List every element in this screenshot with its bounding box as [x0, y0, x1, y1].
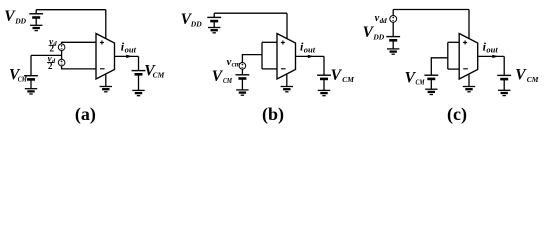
- svg-text:DD: DD: [14, 16, 26, 25]
- svg-text:V: V: [515, 67, 527, 84]
- svg-text:CM: CM: [153, 71, 165, 80]
- svg-text:CM: CM: [527, 75, 539, 84]
- svg-text:out: out: [304, 45, 316, 55]
- svg-text:CM: CM: [416, 78, 425, 87]
- svg-text:cm: cm: [232, 61, 241, 69]
- svg-text:2: 2: [48, 61, 53, 71]
- svg-text:(a): (a): [75, 104, 96, 125]
- svg-text:V: V: [331, 67, 343, 84]
- svg-text:V: V: [212, 68, 224, 85]
- svg-text:CM: CM: [342, 75, 354, 84]
- svg-text:(c): (c): [447, 104, 467, 125]
- svg-text:DD: DD: [190, 19, 202, 28]
- svg-text:(b): (b): [262, 104, 284, 125]
- svg-text:CM: CM: [18, 74, 27, 83]
- svg-text:2: 2: [50, 43, 55, 53]
- svg-text:DD: DD: [372, 33, 384, 42]
- svg-text:out: out: [125, 45, 137, 55]
- svg-text:CM: CM: [223, 76, 232, 85]
- svg-text:dd: dd: [380, 17, 388, 25]
- svg-text:out: out: [486, 45, 498, 55]
